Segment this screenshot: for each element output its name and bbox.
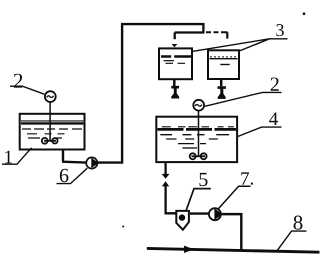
label 7 period — [251, 183, 253, 185]
leader line of label 4 — [238, 127, 282, 136]
tank B dotted water row — [210, 56, 240, 58]
pipe pump 6 to riser — [98, 161, 124, 163]
tank B water dash — [220, 64, 229, 66]
motor M1 (circle with ~) — [45, 91, 56, 102]
tank 4 water dashes row 1 — [160, 134, 229, 136]
label 4 — [269, 112, 278, 125]
trap 5 inner dot — [179, 214, 185, 220]
intake arrow up — [162, 181, 169, 186]
pipe pump 7 to drop leg — [221, 213, 243, 216]
label 2 (left, for motor of tank 1) — [14, 74, 22, 88]
tank 1 outline — [20, 114, 85, 150]
leader line of label 7 — [219, 186, 251, 208]
drop leg down to discharge main — [240, 214, 242, 251]
label 3 — [276, 24, 283, 36]
tank 4 heavy water line — [158, 128, 237, 131]
motor M2 (circle with ~) — [193, 100, 204, 111]
label 6 — [60, 169, 69, 182]
tank 1 impeller — [44, 140, 56, 142]
outlet arrow down — [162, 174, 170, 179]
tank A water band — [161, 55, 191, 58]
tank B (small right) outline — [208, 50, 239, 79]
dashed branch tick down over tank B — [226, 32, 228, 38]
leader line of label 6 — [57, 168, 88, 183]
leader line of label 1 — [2, 148, 32, 164]
tank 1 water dashes row 2 — [27, 133, 65, 135]
tank 4 outlet stub — [164, 162, 166, 174]
label 5 — [199, 173, 207, 186]
downcomer to trap — [164, 186, 166, 213]
tank 4 water dashes row 2 — [166, 138, 218, 140]
tank 1 water dashes row 1 — [22, 128, 82, 130]
tank A (small left) outline — [159, 48, 192, 79]
pipe trap 5 to pump 7 — [190, 212, 209, 214]
valve V-B stem — [220, 80, 223, 87]
elbow to trap 5 — [165, 212, 177, 214]
stray dot lower middle — [122, 226, 124, 228]
tank A water dashes row 2 — [166, 62, 186, 64]
leader line of label 5 — [186, 189, 211, 210]
pipe tank1 to pump 6 — [62, 160, 87, 163]
valve V-A body — [171, 86, 179, 99]
top header pipe — [121, 23, 203, 25]
motor M2 shaft — [198, 111, 200, 156]
flow arrow on main pipe — [184, 246, 194, 253]
dashed branch to tank B — [206, 31, 228, 33]
distribution line over tank A — [175, 31, 205, 33]
tank 4 upper dashed row — [162, 126, 234, 128]
discharge main pipe 8 — [147, 248, 320, 252]
tank 1 outlet stub — [62, 149, 64, 162]
tank 1 water dashes row 3 — [28, 137, 62, 139]
tank B water line — [210, 58, 238, 60]
label 2 (right, for motor of tank 4) — [271, 77, 279, 90]
leader line of label 2 right — [205, 92, 282, 106]
tank 1 water line — [21, 122, 83, 124]
trap / pot 5 outline — [176, 211, 189, 230]
tank 4 impeller — [192, 155, 206, 157]
tank 1 inner lid line — [21, 120, 83, 122]
label 1 — [5, 151, 12, 164]
label 7 — [241, 172, 249, 184]
label 8 — [294, 216, 303, 230]
riser pipe (vertical, up) — [121, 24, 123, 163]
stray dot top right — [303, 12, 306, 15]
leader lines of label 3 (fan to both small tanks) — [193, 39, 288, 52]
pump P7 (circle with filled triangle) — [209, 208, 221, 220]
valve V-A stem — [173, 80, 176, 87]
motor M1 shaft — [49, 102, 51, 141]
tank A water notch dashes — [164, 60, 175, 62]
tank 4 outline — [156, 117, 237, 162]
header elbow down — [202, 23, 204, 33]
pump P6 (circle with filled triangle) — [86, 157, 97, 168]
spout arrowhead over tank A — [172, 44, 178, 47]
tank 4 water dashes row 4 — [182, 147, 197, 149]
spout tick down into tank A — [174, 33, 176, 40]
leader line of label 2 left — [10, 86, 44, 94]
valve V-B body — [217, 86, 225, 99]
leader line of label 8 — [277, 231, 306, 250]
tank 4 water dashes row 3 — [178, 143, 206, 145]
